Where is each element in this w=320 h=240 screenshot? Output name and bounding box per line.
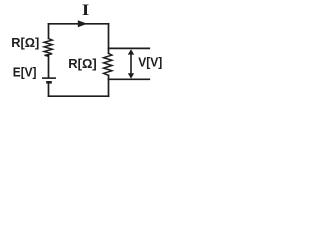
battery E1 short (negative) plate	[48, 81, 51, 84]
resistor R1 (internal resistance) zigzag	[44, 39, 52, 57]
wire: lower voltage reference stub	[109, 78, 150, 80]
voltage arrow V upper head (points up)	[128, 49, 134, 54]
wire: bottom rail	[49, 95, 109, 97]
voltage arrow V lower head (points down)	[128, 73, 134, 78]
svg-text:I: I	[82, 2, 90, 19]
svg-text:V[V]: V[V]	[138, 56, 162, 70]
svg-text:R[Ω]: R[Ω]	[11, 36, 39, 50]
battery E1 long (positive) plate	[43, 77, 55, 79]
wire: upper voltage reference stub	[109, 47, 150, 49]
current arrow I head	[78, 20, 87, 27]
svg-text:E[V]: E[V]	[13, 65, 37, 79]
wire: left wire from battery to bottom rail	[48, 83, 50, 96]
voltage arrow V shaft	[130, 53, 132, 76]
svg-text:R[Ω]: R[Ω]	[68, 57, 96, 71]
resistor R2 (load) zigzag	[104, 53, 112, 75]
wire: left wire from R1 to battery E positive plate	[48, 56, 50, 77]
wire: right wire from R2 to bottom rail	[108, 75, 110, 96]
wire: right wire from top rail to resistor R2	[108, 24, 110, 54]
wire: left wire from top rail to resistor R1	[48, 24, 50, 39]
wire: top rail (node between source and load)	[49, 23, 109, 25]
